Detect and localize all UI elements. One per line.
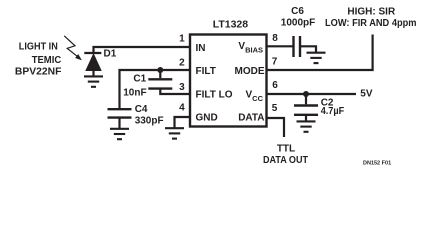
wire pin2 FILT to C4 bbox=[120, 70, 191, 109]
svg-text:4: 4 bbox=[179, 103, 185, 114]
capacitor C6 bbox=[294, 36, 301, 57]
junction node on FILT wire bbox=[157, 67, 163, 73]
svg-text:MODE: MODE bbox=[235, 66, 265, 77]
svg-text:DN152 F01: DN152 F01 bbox=[363, 161, 391, 167]
svg-text:C6: C6 bbox=[291, 6, 304, 17]
svg-text:BPV22NF: BPV22NF bbox=[15, 67, 62, 78]
ground (C6) bbox=[307, 53, 326, 63]
svg-text:TEMIC: TEMIC bbox=[32, 55, 62, 66]
svg-text:7: 7 bbox=[272, 57, 278, 68]
svg-text:GND: GND bbox=[196, 113, 218, 124]
svg-text:HIGH: SIR: HIGH: SIR bbox=[347, 7, 396, 18]
svg-text:C4: C4 bbox=[135, 104, 148, 115]
svg-text:D1: D1 bbox=[104, 48, 117, 59]
svg-text:LIGHT IN: LIGHT IN bbox=[19, 42, 58, 53]
wire C6 to ground bbox=[300, 46, 316, 52]
wire pin8 VBIAS to C6 bbox=[267, 45, 294, 47]
svg-text:10nF: 10nF bbox=[123, 88, 146, 99]
svg-text:IN: IN bbox=[196, 43, 206, 54]
ground (D1) bbox=[84, 76, 103, 86]
ground (C4) bbox=[110, 129, 129, 139]
svg-text:FILT: FILT bbox=[196, 66, 216, 77]
ground (pin4) bbox=[165, 128, 184, 138]
wire pin7 MODE bbox=[267, 35, 373, 71]
svg-text:2: 2 bbox=[179, 58, 185, 69]
capacitor C4 bbox=[108, 109, 132, 129]
wire pin4 GND to ground bbox=[175, 117, 191, 128]
svg-text:1: 1 bbox=[179, 34, 185, 45]
light arrow bbox=[64, 36, 81, 60]
wire pin1 IN to D1 bbox=[94, 47, 191, 53]
svg-text:FILT LO: FILT LO bbox=[196, 90, 233, 101]
ground (C2) bbox=[297, 121, 316, 131]
svg-text:1000pF: 1000pF bbox=[281, 18, 315, 29]
wire pin5 DATA out bbox=[267, 118, 285, 137]
svg-text:DATA: DATA bbox=[238, 113, 264, 124]
wire C1 to pin3 FILT LO bbox=[160, 89, 190, 94]
svg-text:8: 8 bbox=[272, 33, 278, 44]
capacitor C2 bbox=[294, 94, 318, 121]
svg-text:LT1328: LT1328 bbox=[213, 19, 249, 31]
svg-text:3: 3 bbox=[179, 82, 185, 93]
svg-text:TTL: TTL bbox=[277, 144, 295, 155]
svg-text:330pF: 330pF bbox=[135, 116, 164, 127]
photodiode D1 bbox=[84, 53, 101, 76]
svg-text:5: 5 bbox=[272, 103, 278, 114]
svg-text:4.7µF: 4.7µF bbox=[321, 106, 345, 117]
svg-text:LOW: FIR AND 4ppm: LOW: FIR AND 4ppm bbox=[325, 18, 417, 29]
svg-text:5V: 5V bbox=[360, 89, 373, 100]
wire pin6 VCC to 5V bbox=[267, 93, 357, 95]
svg-text:6: 6 bbox=[272, 80, 278, 91]
svg-text:DATA OUT: DATA OUT bbox=[263, 155, 308, 166]
junction node on VCC wire bbox=[303, 91, 309, 97]
svg-text:C1: C1 bbox=[133, 73, 146, 84]
IC U1 LT1328 box bbox=[190, 35, 267, 127]
capacitor C1 bbox=[148, 70, 172, 89]
